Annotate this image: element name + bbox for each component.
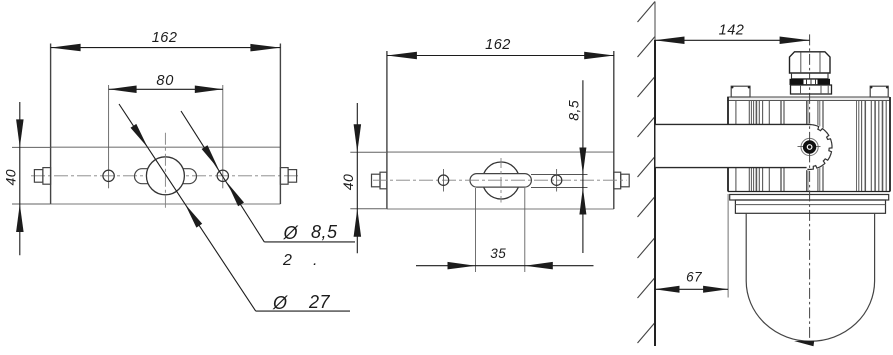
leader for dia 27 [119, 104, 256, 311]
svg-text:Ø: Ø [272, 293, 288, 313]
svg-text:8,5: 8,5 [311, 222, 338, 242]
center axis view3 [809, 34, 811, 341]
gland locknut (dark) [790, 79, 831, 85]
hole right view2 [556, 169, 558, 192]
svg-text:162: 162 [152, 30, 178, 46]
dimension 142 view3 [655, 39, 810, 41]
plate view1 top edge [51, 146, 281, 148]
svg-text:40: 40 [3, 169, 19, 186]
gland collar [791, 85, 832, 94]
wall face line [654, 2, 656, 41]
centerline view2 [373, 179, 627, 181]
dimension 35 view2 [475, 188, 477, 272]
flange ring 2 [735, 200, 885, 213]
knob washer circle [801, 138, 818, 155]
svg-text:80: 80 [156, 73, 174, 89]
hole right view1 (8.5 dia) with extension to 80 dim [222, 85, 224, 188]
gland ring [792, 73, 829, 79]
svg-text:Ø: Ø [283, 223, 299, 243]
plate view1 left edge + 162 extension [50, 44, 52, 205]
knob horizontal centerline [798, 146, 822, 148]
arrow at dome bottom [794, 341, 814, 347]
dimension 40 view2 [350, 151, 387, 153]
dimension 162 view2 [387, 55, 614, 57]
wall hatching [638, 2, 656, 344]
housing body outline [727, 97, 729, 192]
svg-text:162: 162 [485, 37, 511, 53]
svg-text:142: 142 [719, 23, 745, 39]
plate view1 right edge + 162 extension [279, 44, 281, 205]
circle vertical centerline view1 [164, 133, 166, 210]
plate view2 bottom edge [387, 208, 614, 210]
plate view1 bottom edge [51, 203, 281, 205]
dimension 40 view1 [12, 146, 51, 148]
pivot bolt [805, 142, 815, 152]
keyhole circle view1 (27 dia) [146, 157, 184, 195]
housing top band [727, 97, 889, 101]
dimension 67 view3 [727, 194, 729, 298]
housing fins [735, 101, 737, 192]
arm edge lines (8.5 thick) view2 [531, 174, 588, 176]
svg-text:40: 40 [340, 174, 356, 191]
svg-text:.: . [313, 252, 317, 269]
circle vertical centerline view2 [500, 158, 502, 203]
slot obround view2 (35) [470, 174, 531, 188]
svg-text:2: 2 [282, 252, 292, 269]
stud left view1 [34, 170, 43, 183]
plate view2 left edge + 162 extension [386, 51, 388, 209]
bracket arm [656, 125, 808, 167]
stud right view1 [280, 168, 288, 185]
stud left view2 [372, 174, 381, 187]
svg-text:8,5: 8,5 [566, 100, 582, 121]
knob scalloped wheel [807, 125, 832, 170]
hole left view2 [443, 169, 445, 192]
centerline view1 [31, 175, 300, 177]
svg-text:35: 35 [490, 246, 506, 261]
cable gland cap nut [790, 52, 831, 73]
dimension 80 view1 [109, 88, 223, 90]
svg-text:27: 27 [308, 292, 331, 312]
lug right [870, 86, 888, 97]
keyhole circle view2 (27 dia) [483, 162, 520, 199]
hole left view1 (8.5 dia) with extension to 80 dim [108, 85, 110, 188]
flange ring 1 [730, 195, 889, 201]
stud right view2 [614, 172, 621, 189]
plate view2 right edge + 162 extension [613, 51, 615, 209]
keyhole slot view1 [135, 169, 197, 184]
lug left [731, 86, 750, 97]
svg-text:67: 67 [686, 270, 702, 285]
plate view2 top edge [387, 151, 614, 153]
glass dome [746, 213, 874, 341]
dimension 162 view1 [51, 47, 281, 49]
dimension 8,5 view2 [582, 80, 584, 253]
leader for dia 8.5 [181, 111, 264, 242]
